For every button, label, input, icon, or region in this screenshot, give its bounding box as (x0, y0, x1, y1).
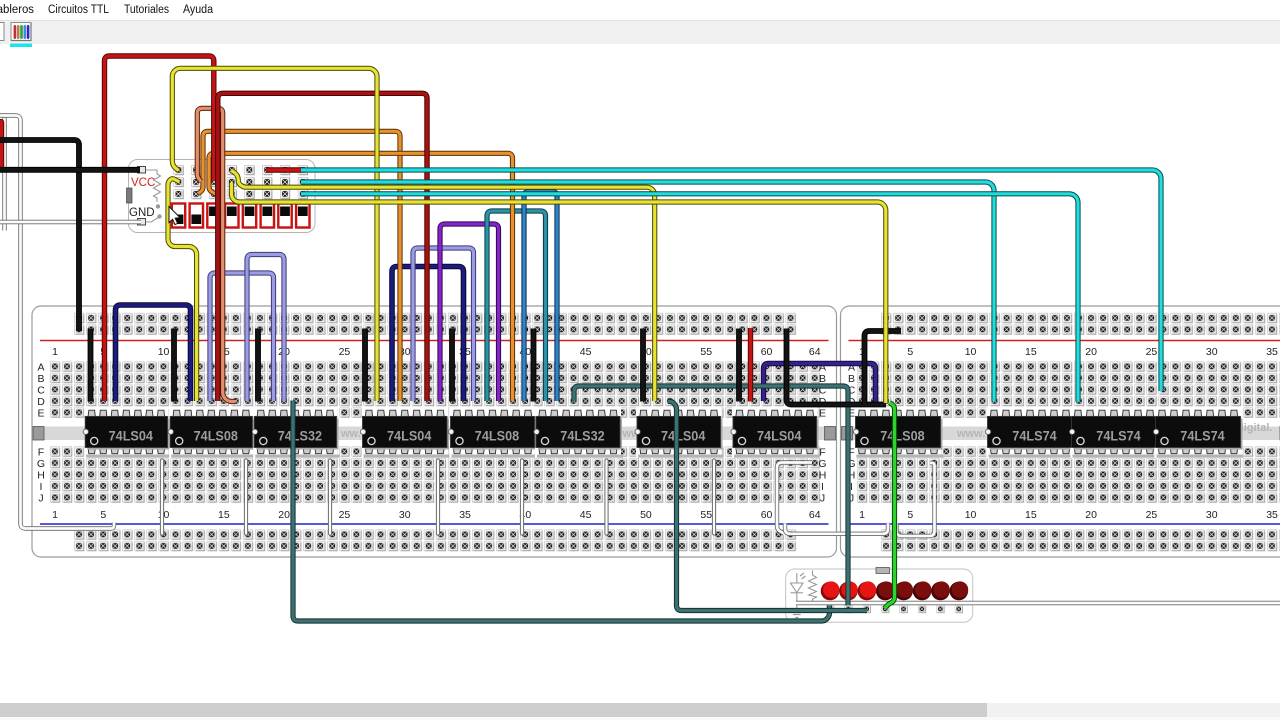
svg-text:10: 10 (965, 346, 977, 358)
IC U11 74LS74 (1069, 407, 1159, 459)
wire white ground jumper G-rail x714 (712, 461, 716, 534)
IC U5 74LS08 (448, 407, 537, 459)
toolbar (0, 21, 1280, 45)
svg-text:B: B (37, 373, 44, 385)
wire black rail-to-D jumper x174 (171, 329, 177, 402)
svg-text:30: 30 (1206, 509, 1218, 521)
svg-text:64: 64 (809, 509, 821, 521)
LED lamps D1-D8 (821, 581, 969, 600)
svg-text:J: J (820, 493, 825, 505)
svg-text:15: 15 (1025, 346, 1037, 358)
svg-text:74LS74: 74LS74 (1096, 428, 1141, 444)
wire yellow wire DIP1b to rail13 (168, 179, 197, 401)
svg-text:A: A (37, 362, 44, 374)
svg-text:Circuitos TTL: Circuitos TTL (48, 4, 110, 16)
wire indigo jumper cross-gap row A (764, 364, 876, 403)
wire teal wire D44 to LED2 (574, 386, 848, 606)
menu bar (0, 0, 1280, 21)
svg-text:F: F (819, 447, 825, 459)
wire white wire GND feed (0, 220, 141, 224)
wire red stub left edge (0, 122, 2, 170)
svg-text:1: 1 (52, 346, 58, 358)
IC U2 74LS08 (168, 407, 255, 459)
svg-text:25: 25 (1146, 346, 1158, 358)
svg-text:74LS32: 74LS32 (560, 428, 605, 444)
svg-text:60: 60 (761, 509, 773, 521)
wire yellow wire DIP1a long (172, 68, 377, 401)
wire white jumper rail2 to G7 (897, 463, 935, 536)
svg-text:E: E (37, 408, 44, 420)
DIP switch block U13 (127, 160, 316, 233)
wire black wire board2 rail to D (865, 331, 902, 405)
wire black wire rail62 to D-board2 (787, 329, 887, 405)
svg-text:60: 60 (761, 346, 773, 358)
svg-text:10: 10 (158, 346, 170, 358)
wire green wire D3 to LED4 (885, 403, 895, 609)
IC U10 74LS74 (985, 407, 1075, 459)
wire white ground jumper G-rail x330 (328, 461, 332, 534)
svg-text:H: H (819, 470, 827, 482)
wire black rail-to-D jumper x452 (449, 329, 455, 402)
svg-text:C: C (37, 385, 45, 397)
svg-text:74LS08: 74LS08 (194, 428, 239, 444)
wire navy jumper cols6-12 (116, 305, 191, 401)
svg-text:74LS08: 74LS08 (475, 428, 520, 444)
svg-text:64: 64 (809, 346, 821, 358)
IC U1 74LS04 (83, 407, 170, 459)
svg-text:74LS04: 74LS04 (109, 428, 154, 444)
IC U4 74LS04 (360, 407, 450, 459)
svg-text:74LS74: 74LS74 (1180, 428, 1225, 444)
svg-text:www.: www. (956, 428, 985, 440)
wire black rail-to-D jumper x90.5 (88, 329, 94, 402)
wire white ground jumper G-rail x522 (520, 461, 524, 534)
breadboard board 1 (left) (32, 306, 837, 557)
wire lavender jumper L1 (210, 273, 274, 401)
svg-text:J: J (38, 493, 43, 505)
wire black rail-to-D jumper x258 (255, 329, 261, 402)
wire navy jumper cols29-35 (392, 267, 464, 402)
svg-text:G: G (37, 458, 45, 470)
svg-text:35: 35 (1266, 346, 1278, 358)
svg-text:30: 30 (1206, 346, 1218, 358)
wire lavender jumper L2 (247, 255, 284, 402)
wire teal wire D20 to LED1 (293, 401, 830, 622)
wire white ground jumper G-rail x606.5 (604, 461, 608, 534)
wire cyan wire DIP8b to board2-12 (301, 182, 994, 402)
svg-text:B: B (819, 373, 826, 385)
svg-text:20: 20 (1085, 509, 1097, 521)
svg-text:20: 20 (278, 509, 290, 521)
svg-text:I: I (821, 481, 824, 493)
svg-text:1: 1 (52, 509, 58, 521)
IC U6 74LS32 (534, 407, 623, 459)
wire teal arch jumper (487, 211, 546, 401)
svg-text:74LS04: 74LS04 (661, 428, 706, 444)
breadboard board 2 (right) (841, 306, 1280, 557)
svg-text:1: 1 (859, 509, 865, 521)
wire black rail-to-D jumper x533.5 (531, 329, 537, 402)
wire red jumper DIP row1 (266, 167, 301, 172)
IC U12 74LS74 (1153, 407, 1243, 459)
svg-text:G: G (818, 458, 826, 470)
wire cyan wire DIP8a to board2-26 (301, 170, 1161, 391)
wire white jumper rail gap bridge (785, 524, 888, 534)
svg-text:D: D (37, 396, 45, 408)
svg-text:25: 25 (339, 509, 351, 521)
DIP switches S1-S8 (172, 204, 311, 229)
wire black rail-to-D jumper x643 (640, 329, 646, 402)
ground symbol (791, 612, 803, 618)
wire yellow wire DIP4a to D50 (232, 171, 655, 402)
LED symbol (791, 573, 806, 610)
LED series resistor (809, 571, 817, 604)
IC U8 74LS04 (731, 407, 820, 459)
svg-text:35: 35 (459, 509, 471, 521)
wire salmon wire DIP2b to D16 (197, 108, 235, 401)
wire white wire left edge to bottom rail (0, 116, 114, 529)
svg-text:Tutoriales: Tutoriales (124, 4, 169, 16)
svg-text:Tableros: Tableros (0, 4, 34, 16)
wire white ground jumper G-rail x438 (436, 461, 440, 534)
IC U7 74LS04 (635, 407, 724, 459)
svg-text:30: 30 (399, 509, 411, 521)
mouse cursor (169, 207, 180, 225)
wire cyan wire DIP8c to board2-19 (301, 194, 1078, 402)
wire teal wire D52 to LED3 (668, 402, 867, 611)
svg-text:45: 45 (580, 346, 592, 358)
wire blue arch jumper (524, 192, 557, 402)
wire red wire D5 to DIP3b (105, 56, 214, 401)
IC U9 74LS08 (853, 407, 943, 459)
svg-text:ww.: ww. (340, 428, 361, 440)
svg-text:5: 5 (100, 509, 106, 521)
svg-text:VCC: VCC (131, 177, 155, 189)
svg-text:74LS04: 74LS04 (757, 428, 802, 444)
svg-text:I: I (40, 481, 43, 493)
wire white ground jumper G-rail x162 (160, 461, 164, 534)
svg-text:5: 5 (907, 509, 913, 521)
watermark www (340, 422, 1272, 440)
wire yellow wire DIP4b to board2 (232, 183, 886, 404)
svg-text:F: F (38, 447, 44, 459)
DIP VCC input pin (138, 167, 146, 174)
wire white jumper G64 to rail (777, 463, 812, 536)
toolbar active underline (10, 44, 32, 48)
wire white jumper left-edge stub (2, 116, 6, 231)
wire black feed DIP VCC (0, 167, 140, 173)
svg-text:5: 5 (907, 346, 913, 358)
wire black feed rail top-left (0, 140, 79, 331)
svg-text:25: 25 (339, 346, 351, 358)
DIP pin sockets (174, 165, 308, 199)
svg-text:10: 10 (965, 509, 977, 521)
wire black rail-to-D jumper x365 (362, 329, 368, 402)
svg-text:H: H (37, 470, 45, 482)
svg-text:B: B (848, 373, 855, 385)
DIP GND input pin (138, 219, 146, 226)
IC U3 74LS32 (252, 407, 339, 459)
wire black rail-to-D jumper x739 (736, 329, 742, 402)
svg-text:GND: GND (129, 207, 155, 219)
horizontal scrollbar (0, 703, 1280, 720)
svg-text:15: 15 (218, 509, 230, 521)
svg-text:35: 35 (1266, 509, 1278, 521)
svg-text:55: 55 (700, 509, 712, 521)
wire orange wire DIP2c to D29 (198, 131, 400, 401)
svg-text:74LS74: 74LS74 (1012, 428, 1057, 444)
svg-text:45: 45 (580, 509, 592, 521)
svg-text:25: 25 (1146, 509, 1158, 521)
wire orange wire DIP3c to D39 (209, 153, 513, 401)
wire dark red jumper D16-D31 (218, 93, 427, 401)
wire red wire rail to D57 board gap (748, 328, 753, 402)
svg-text:55: 55 (700, 346, 712, 358)
svg-text:15: 15 (1025, 509, 1037, 521)
svg-text:E: E (819, 408, 826, 420)
svg-text:74LS04: 74LS04 (387, 428, 432, 444)
wire white ground jumper G-rail x246 (244, 461, 248, 534)
DIP pullup resistor (146, 170, 161, 222)
wire lavender jumper L3 (413, 248, 474, 401)
svg-text:20: 20 (1085, 346, 1097, 358)
wire purple jumper (440, 224, 499, 401)
LED pin sockets (826, 605, 963, 613)
svg-text:74LS08: 74LS08 (880, 428, 925, 444)
LED bar block (786, 568, 973, 623)
svg-text:74LS32: 74LS32 (278, 428, 323, 444)
wire white wire LED cathode to right edge (796, 601, 1280, 605)
svg-text:50: 50 (640, 509, 652, 521)
svg-text:Ayuda: Ayuda (183, 4, 214, 16)
